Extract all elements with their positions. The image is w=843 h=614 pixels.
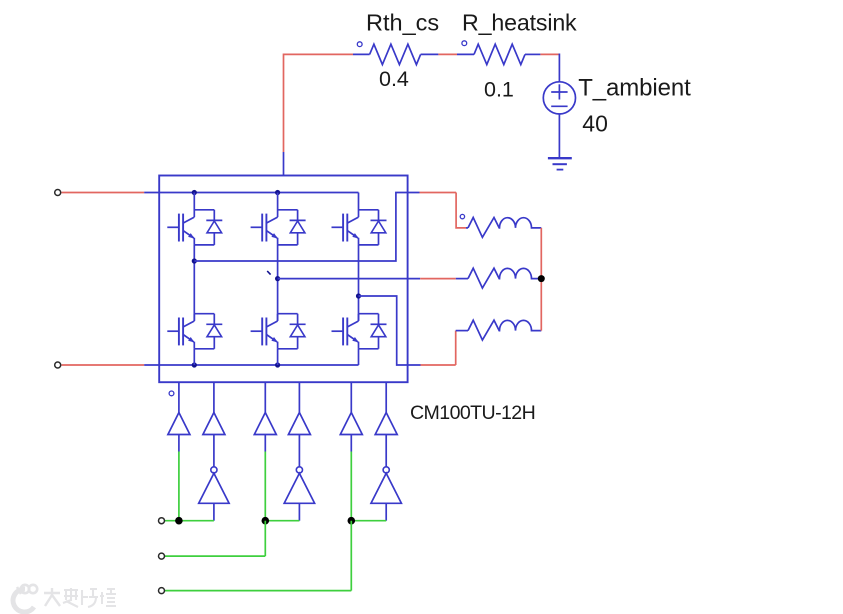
svg-text:R_heatsink: R_heatsink xyxy=(462,10,577,36)
svg-text:Rth_cs: Rth_cs xyxy=(366,10,439,36)
svg-text:CM100TU-12H: CM100TU-12H xyxy=(410,402,535,424)
svg-text:40: 40 xyxy=(582,111,608,137)
svg-text:T_ambient: T_ambient xyxy=(578,74,691,101)
svg-text:0.4: 0.4 xyxy=(379,67,409,91)
svg-text:0.1: 0.1 xyxy=(484,78,514,102)
